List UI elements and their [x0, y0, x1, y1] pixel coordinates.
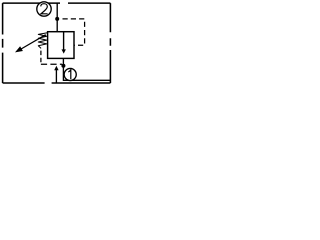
frame left edge	[2, 3, 4, 83]
spring (adjustable) on left of valve	[38, 33, 47, 49]
node B junction dot on port 1 line	[61, 64, 65, 68]
frame bottom edge	[3, 82, 111, 84]
pilot line (dashed) from port 2 to right side of valve	[63, 19, 85, 45]
port flow arrow entering at bottom boundary	[54, 66, 58, 84]
frame right edge	[109, 3, 111, 83]
frame top edge	[3, 2, 111, 4]
node A junction dot on port 2 line	[55, 17, 59, 21]
port 2 label circle	[37, 2, 51, 16]
adjustment arrow across spring	[15, 35, 46, 53]
port 1 label circle	[64, 68, 76, 80]
wire: port 1 line down and right to frame edge	[63, 58, 111, 80]
valve V1 envelope square	[48, 32, 74, 59]
wire: port 2 line	[56, 3, 58, 32]
flow path arrow inside valve	[62, 32, 66, 54]
manifold boundary frame (solid with port-break gaps)	[3, 3, 111, 83]
drain line (dashed) from spring chamber to port 1	[40, 51, 42, 64]
